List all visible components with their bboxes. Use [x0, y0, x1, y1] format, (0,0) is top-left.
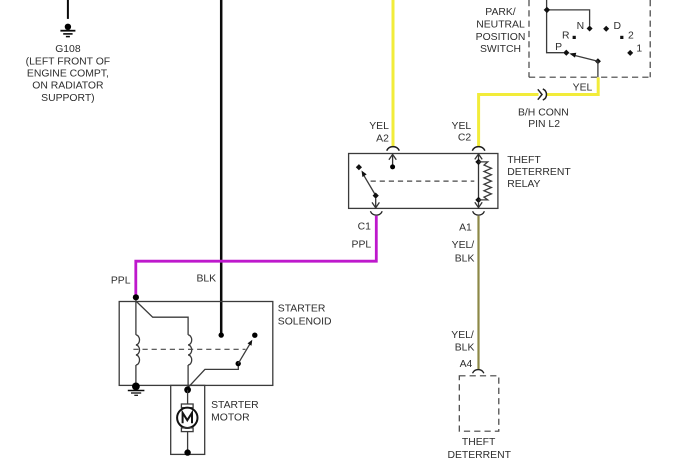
svg-text:D: D — [613, 21, 621, 32]
svg-text:B/H CONN: B/H CONN — [518, 108, 569, 119]
svg-text:C1: C1 — [358, 222, 372, 233]
svg-text:NEUTRAL: NEUTRAL — [476, 19, 525, 30]
svg-text:THEFT: THEFT — [462, 437, 496, 448]
svg-text:BLK: BLK — [455, 253, 475, 264]
svg-text:G108: G108 — [55, 44, 81, 55]
svg-text:R: R — [562, 31, 570, 42]
svg-text:BLK: BLK — [455, 342, 475, 353]
svg-text:SOLENOID: SOLENOID — [278, 317, 332, 328]
svg-text:DETERRENT: DETERRENT — [507, 167, 571, 178]
svg-text:ENGINE COMPT,: ENGINE COMPT, — [27, 69, 109, 80]
svg-text:1: 1 — [636, 44, 642, 55]
svg-text:PARK/: PARK/ — [485, 7, 516, 18]
svg-text:ON RADIATOR: ON RADIATOR — [32, 81, 104, 92]
svg-text:PPL: PPL — [352, 240, 372, 251]
svg-text:PIN L2: PIN L2 — [528, 119, 560, 130]
svg-text:SWITCH: SWITCH — [480, 44, 521, 55]
svg-text:YEL/: YEL/ — [452, 240, 475, 251]
svg-text:SUPPORT): SUPPORT) — [41, 93, 95, 104]
svg-text:MOTOR: MOTOR — [211, 413, 250, 424]
svg-text:RELAY: RELAY — [507, 179, 540, 190]
svg-text:STARTER: STARTER — [211, 400, 259, 411]
svg-text:P: P — [555, 42, 562, 53]
svg-text:A2: A2 — [376, 134, 389, 145]
svg-text:YEL: YEL — [573, 82, 593, 93]
svg-text:DETERRENT: DETERRENT — [447, 450, 511, 461]
svg-text:A1: A1 — [459, 222, 472, 233]
svg-text:C2: C2 — [458, 132, 472, 143]
svg-text:YEL/: YEL/ — [451, 330, 474, 341]
svg-text:STARTER: STARTER — [278, 303, 326, 314]
svg-text:BLK: BLK — [196, 274, 216, 285]
svg-text:(LEFT FRONT OF: (LEFT FRONT OF — [26, 56, 110, 67]
svg-text:N: N — [577, 21, 585, 32]
svg-text:YEL: YEL — [452, 121, 472, 132]
svg-text:YEL: YEL — [369, 121, 389, 132]
svg-text:POSITION: POSITION — [476, 32, 526, 43]
svg-text:A4: A4 — [460, 359, 473, 370]
svg-text:2: 2 — [628, 31, 634, 42]
svg-text:PPL: PPL — [111, 276, 131, 287]
svg-text:THEFT: THEFT — [507, 155, 541, 166]
